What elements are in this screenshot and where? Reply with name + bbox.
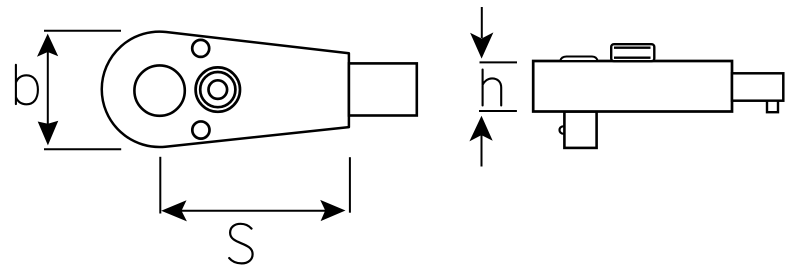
side view: reverse knob cap (611, 44, 654, 61)
side view: square drive below body (564, 112, 596, 148)
tang rectangle (top view) (349, 63, 417, 115)
dimension h bottom arrowhead up (469, 116, 492, 142)
label b (16, 65, 38, 105)
side view: ball detail on square drive (560, 126, 567, 133)
dimension S arrowhead right (320, 200, 345, 221)
side view: tang (732, 73, 783, 100)
side view: tang pin (767, 101, 778, 113)
side view: main body (533, 61, 732, 112)
dimension b arrowhead up (37, 34, 58, 57)
dimension b arrow line (47, 50, 49, 126)
large hole circle (134, 65, 184, 115)
dimension h bottom extension line (479, 110, 517, 112)
dimension b top extension line (44, 30, 121, 32)
drive boss middle ring (200, 72, 235, 107)
small pin hole top (192, 40, 209, 57)
side view: knob inner top line (614, 47, 651, 49)
dimension h top arrow line (481, 7, 483, 38)
dimension h top arrowhead down (470, 32, 493, 58)
side view: knob inner bottom line (614, 57, 651, 59)
label h (483, 70, 502, 106)
drive boss inner ring (209, 80, 228, 99)
dimension h bottom arrow line (481, 135, 483, 167)
small pin hole bottom (192, 121, 209, 138)
dimension S arrowhead left (161, 200, 187, 221)
label S (229, 224, 252, 264)
dimension S right extension line (349, 157, 351, 213)
drive boss outer ring (196, 67, 240, 111)
ratchet head outline (top view) (102, 32, 349, 147)
dimension S left extension line (159, 157, 161, 214)
dimension S line (181, 210, 326, 212)
dimension b arrowhead down (38, 121, 59, 146)
dimension h top extension line (480, 61, 518, 63)
side view: top bump plate (560, 57, 598, 62)
dimension b bottom extension line (44, 148, 121, 150)
